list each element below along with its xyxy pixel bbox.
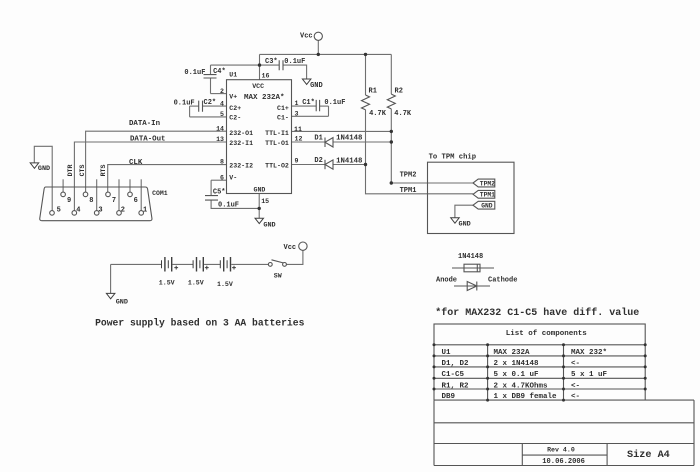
- svg-text:TTL-O2: TTL-O2: [265, 163, 289, 170]
- svg-text:2 x 4.7KOhms: 2 x 4.7KOhms: [494, 382, 549, 390]
- svg-text:MAX 232A*: MAX 232A*: [244, 94, 285, 102]
- svg-text:DB9: DB9: [442, 393, 456, 401]
- svg-text:4.7K: 4.7K: [369, 110, 387, 118]
- svg-text:GND: GND: [254, 187, 266, 194]
- svg-text:TPM2: TPM2: [480, 180, 495, 187]
- svg-text:10.06.2006: 10.06.2006: [542, 458, 585, 466]
- svg-text:VCC: VCC: [252, 83, 264, 90]
- svg-text:R1: R1: [369, 87, 377, 95]
- svg-text:U1: U1: [442, 349, 452, 357]
- svg-text:To TPM chip: To TPM chip: [429, 153, 476, 161]
- svg-text:4: 4: [76, 206, 80, 214]
- svg-text:9: 9: [295, 158, 299, 165]
- svg-text:6: 6: [134, 197, 138, 205]
- svg-text:1: 1: [295, 100, 299, 107]
- svg-text:Anode: Anode: [436, 277, 457, 285]
- svg-text:Cathode: Cathode: [488, 277, 517, 285]
- svg-text:CTS: CTS: [79, 164, 86, 176]
- svg-text:<-: <-: [571, 393, 580, 401]
- svg-text:TPM1: TPM1: [480, 192, 495, 199]
- svg-text:TPM2: TPM2: [400, 172, 417, 180]
- svg-text:0.1uF: 0.1uF: [218, 201, 239, 209]
- svg-text:C5*: C5*: [213, 188, 226, 196]
- svg-text:DTR: DTR: [67, 164, 74, 176]
- svg-text:GND: GND: [481, 203, 493, 210]
- svg-text:1N4148: 1N4148: [458, 253, 483, 261]
- svg-text:5: 5: [57, 206, 61, 214]
- svg-text:C1*: C1*: [302, 99, 315, 107]
- svg-text:R2: R2: [395, 87, 403, 95]
- svg-text:3: 3: [98, 206, 102, 214]
- svg-text:232-I2: 232-I2: [229, 163, 253, 170]
- svg-text:2: 2: [220, 88, 224, 95]
- svg-text:D2: D2: [314, 157, 322, 165]
- svg-text:SW: SW: [274, 272, 282, 279]
- svg-text:4.7K: 4.7K: [394, 110, 412, 118]
- svg-text:DATA-In: DATA-In: [129, 120, 160, 128]
- svg-text:232-I1: 232-I1: [229, 140, 253, 147]
- svg-text:0.1uF: 0.1uF: [174, 99, 195, 107]
- svg-text:Power supply based on 3 AA bat: Power supply based on 3 AA batteries: [95, 317, 304, 328]
- svg-text:R1, R2: R1, R2: [442, 382, 470, 390]
- svg-text:GND: GND: [310, 82, 323, 90]
- svg-text:1 x DB9 female: 1 x DB9 female: [494, 393, 558, 401]
- svg-text:1.5V: 1.5V: [217, 281, 233, 288]
- svg-text:16: 16: [262, 72, 270, 79]
- svg-text:1N4148: 1N4148: [336, 135, 362, 143]
- svg-text:12: 12: [295, 136, 303, 143]
- svg-text:8: 8: [220, 159, 224, 166]
- svg-text:<-: <-: [571, 382, 580, 390]
- svg-text:C1-: C1-: [277, 115, 289, 122]
- svg-text:MAX 232*: MAX 232*: [571, 349, 607, 357]
- svg-text:Size A4: Size A4: [627, 449, 670, 461]
- svg-text:2 x 1N4148: 2 x 1N4148: [494, 360, 540, 368]
- svg-text:DATA-Out: DATA-Out: [130, 135, 165, 143]
- svg-text:4: 4: [220, 100, 224, 107]
- svg-text:232-O1: 232-O1: [229, 130, 253, 137]
- svg-text:List of components: List of components: [506, 330, 588, 338]
- svg-text:8: 8: [89, 197, 93, 205]
- svg-text:C1+: C1+: [277, 105, 289, 112]
- svg-text:MAX 232A: MAX 232A: [494, 349, 531, 357]
- svg-text:GND: GND: [459, 221, 471, 229]
- svg-text:TTL-O1: TTL-O1: [265, 140, 289, 147]
- svg-text:1: 1: [143, 206, 147, 214]
- svg-text:*for MAX232 C1-C5 have diff. v: *for MAX232 C1-C5 have diff. value: [435, 307, 639, 319]
- svg-text:C2+: C2+: [229, 105, 241, 112]
- svg-text:2: 2: [121, 206, 125, 214]
- svg-text:0.1uF: 0.1uF: [284, 58, 305, 66]
- svg-text:CLK: CLK: [129, 159, 143, 167]
- svg-text:9: 9: [67, 197, 71, 205]
- svg-text:TPM1: TPM1: [400, 187, 417, 195]
- svg-text:1.5V: 1.5V: [188, 279, 204, 286]
- svg-text:5 x 0.1 uF: 5 x 0.1 uF: [494, 371, 540, 379]
- svg-text:0.1uF: 0.1uF: [324, 99, 345, 107]
- svg-text:14: 14: [216, 125, 224, 132]
- svg-text:GND: GND: [263, 222, 275, 230]
- svg-text:GND: GND: [38, 165, 50, 173]
- svg-text:3: 3: [295, 111, 299, 118]
- svg-text:Vcc: Vcc: [284, 244, 297, 252]
- svg-text:COM1: COM1: [152, 190, 168, 197]
- svg-text:1N4148: 1N4148: [336, 158, 362, 166]
- svg-text:D1: D1: [314, 134, 322, 142]
- svg-text:5 x 1 uF: 5 x 1 uF: [571, 371, 608, 379]
- svg-text:V-: V-: [229, 174, 237, 181]
- svg-text:1.5V: 1.5V: [159, 279, 175, 286]
- svg-text:11: 11: [294, 126, 302, 133]
- svg-text:TTL-I1: TTL-I1: [265, 130, 289, 137]
- svg-text:D1, D2: D1, D2: [442, 360, 470, 368]
- svg-text:0.1uF: 0.1uF: [184, 69, 205, 77]
- svg-text:C4*: C4*: [213, 68, 226, 76]
- svg-text:U1: U1: [229, 72, 237, 79]
- svg-text:C1-C5: C1-C5: [442, 371, 465, 379]
- svg-text:15: 15: [261, 198, 269, 205]
- svg-text:C2-: C2-: [229, 115, 241, 122]
- svg-text:7: 7: [112, 197, 116, 205]
- svg-text:Vcc: Vcc: [300, 33, 313, 41]
- svg-text:Rev 4.0: Rev 4.0: [547, 447, 575, 454]
- svg-text:5: 5: [220, 111, 224, 118]
- svg-text:6: 6: [220, 175, 224, 182]
- svg-text:13: 13: [216, 136, 224, 143]
- svg-text:C2*: C2*: [204, 99, 217, 107]
- svg-text:C3*: C3*: [265, 58, 278, 66]
- svg-text:RTS: RTS: [100, 164, 107, 176]
- svg-text:<-: <-: [571, 360, 580, 368]
- svg-text:V+: V+: [229, 93, 237, 100]
- svg-text:GND: GND: [116, 298, 128, 306]
